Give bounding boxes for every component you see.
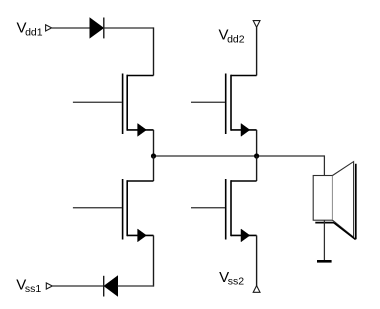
wire node A down to M3 drain: [153, 156, 155, 181]
wire speaker to ground: [323, 220, 325, 261]
transistor M1 (top-left NMOS): [123, 74, 154, 135]
wire Vss1 pin to diode D2: [52, 285, 104, 287]
node Vdd2 label: [219, 26, 245, 45]
arrow M2 source: [241, 124, 250, 137]
wire node B down to M4 drain: [256, 156, 258, 181]
svg-text:dd1: dd1: [25, 27, 43, 39]
ground: [317, 260, 332, 263]
arrow M1 source: [138, 124, 147, 137]
transistor M2 (top-right NMOS): [226, 74, 257, 135]
pin Vss1 (input port triangle): [46, 283, 52, 289]
wire output node rail: [154, 155, 325, 157]
wire Vdd2 pin down to M2 drain: [256, 27, 258, 75]
svg-text:ss2: ss2: [228, 275, 245, 287]
wire Vdd1 rail down to M1 drain: [153, 27, 155, 75]
pin Vdd2 (port triangle pointing down): [253, 21, 260, 28]
wire M3 source down to Vss1 rail: [153, 235, 155, 286]
wire M2 gate: [191, 101, 225, 103]
wire node rail down to speaker: [323, 155, 325, 175]
node B junction dot: [254, 153, 259, 158]
arrow M3 source: [138, 229, 147, 242]
node Vss1 label: [16, 277, 41, 295]
pin Vdd1 (input port triangle): [46, 25, 52, 31]
svg-text:ss1: ss1: [25, 283, 42, 295]
pin Vss2 (port triangle pointing up): [253, 286, 260, 293]
wire M1 gate: [73, 101, 122, 103]
svg-text:dd2: dd2: [227, 34, 245, 46]
wire M1 source down to node A: [153, 130, 155, 156]
node Vdd1 label: [17, 20, 43, 39]
diode D1: [90, 18, 104, 39]
wire diode D2 to M3 source column: [118, 285, 154, 287]
arrow M4 source: [241, 229, 250, 242]
transistor M3 (bottom-left NMOS): [123, 179, 154, 240]
wire M2 source down to node B: [256, 130, 258, 156]
node Vss2 label: [219, 269, 244, 287]
transistor M4 (bottom-right NMOS): [226, 179, 257, 240]
wire M4 source down to Vss2 pin: [256, 235, 258, 286]
wire M3 gate: [73, 207, 122, 209]
wire M4 gate: [191, 207, 225, 209]
wire diode D1 to node A: [104, 27, 154, 29]
node A junction dot: [151, 153, 156, 158]
wire Vdd1 pin to diode D1: [52, 27, 90, 29]
diode D2: [104, 276, 118, 297]
speaker LS1: [313, 162, 356, 240]
